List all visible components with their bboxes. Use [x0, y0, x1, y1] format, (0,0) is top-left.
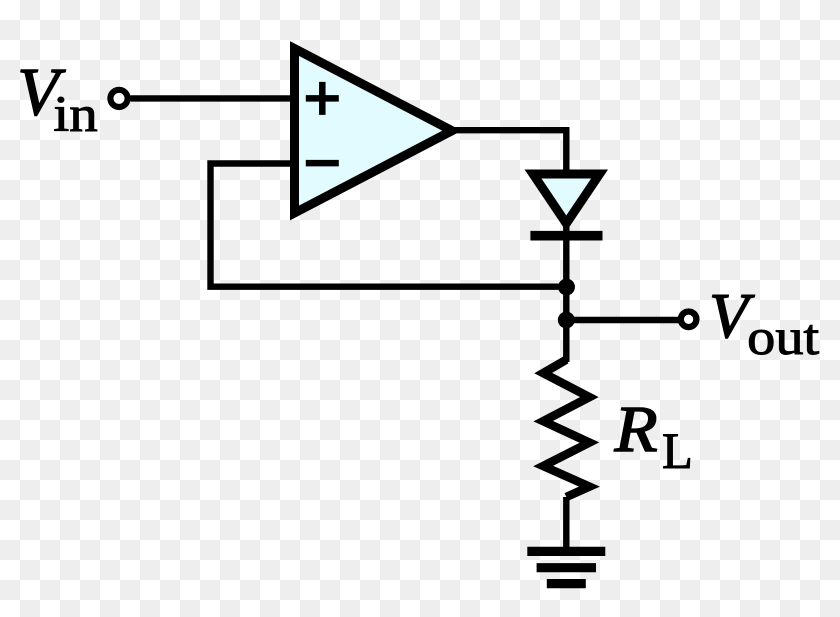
wire resistor to ground — [563, 497, 569, 549]
op-amp U1 — [295, 49, 453, 214]
svg-text:R: R — [614, 393, 658, 466]
wire op-amp - input / feedback loop — [211, 164, 567, 287]
svg-text:L: L — [662, 423, 693, 479]
label RL — [614, 393, 693, 479]
wire diode to resistor — [563, 222, 569, 362]
resistor RL — [543, 360, 589, 497]
label Vin — [17, 54, 97, 142]
node junction feedback — [558, 279, 575, 296]
ground — [527, 551, 605, 583]
label Vout — [709, 280, 819, 366]
wire to Vout — [566, 317, 679, 323]
wire Vin to op-amp + input — [131, 95, 293, 101]
svg-text:in: in — [53, 86, 97, 142]
node junction output — [558, 312, 575, 329]
wire op-amp output to diode — [453, 130, 566, 176]
node Vout terminal — [681, 312, 697, 328]
node Vin terminal — [110, 90, 127, 107]
svg-text:out: out — [747, 310, 819, 366]
diode D1 — [530, 174, 602, 236]
